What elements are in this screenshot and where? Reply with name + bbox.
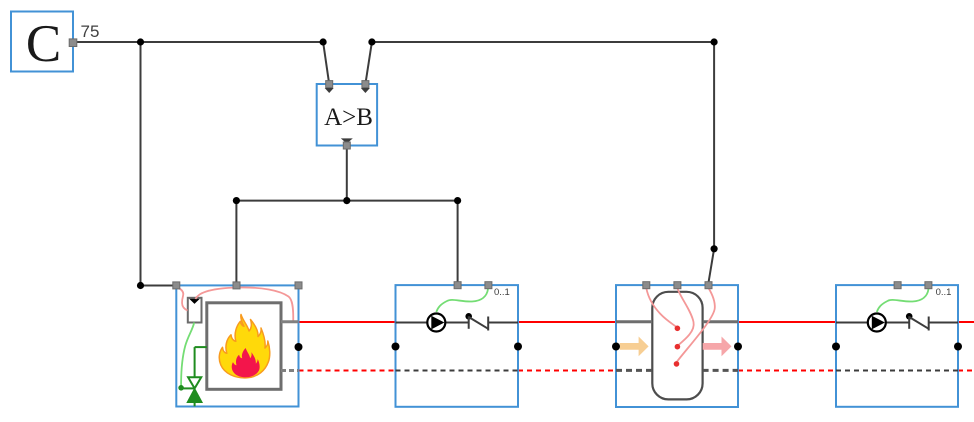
wire slant to A>B input A <box>323 42 329 84</box>
tank sensor curve 2 <box>677 288 693 346</box>
boiler igniter green control curve <box>181 323 194 387</box>
junction dot right of A>B <box>368 38 375 45</box>
boiler top port left <box>173 282 180 289</box>
pump P1 internal return dashed <box>396 370 519 372</box>
wire top right segment <box>372 41 714 43</box>
wire into boiler left port <box>141 285 177 287</box>
pump P1 top port speed <box>485 282 492 289</box>
flame icon <box>219 315 269 378</box>
boiler outlet node dot <box>295 343 303 351</box>
tank sensor curve 3 <box>677 288 715 362</box>
tank charge arrow orange <box>620 337 649 357</box>
pump P2 top port signal <box>894 282 901 289</box>
constant block C <box>11 12 73 74</box>
svg-text:75: 75 <box>81 22 100 41</box>
pump P2 green control curve <box>877 289 929 312</box>
boiler pink control curve left <box>178 288 188 311</box>
junction dot above tank <box>711 245 718 252</box>
wire middle horizontal bus <box>236 200 457 202</box>
wire down to boiler middle port <box>235 201 237 286</box>
wire right vertical drop <box>713 42 715 249</box>
red return pipe dashed pump P2 to edge <box>958 370 974 372</box>
junction dot left bus end <box>233 197 240 204</box>
input port A of comparator <box>325 81 334 93</box>
pump P1 check valve <box>465 313 488 331</box>
tank top port 3 <box>705 282 712 289</box>
wire slant into tank port <box>708 249 714 285</box>
junction dot bus center <box>343 197 350 204</box>
red return pipe dashed pump P1 to tank <box>518 370 616 372</box>
junction dot left drop bottom <box>137 282 144 289</box>
red supply pipe pump P1 to tank <box>518 321 616 323</box>
pump P1 internal pipe <box>396 322 469 324</box>
pump P2 outlet node dot <box>954 343 962 351</box>
tank top port 1 <box>643 282 650 289</box>
pump P2 check valve <box>906 313 929 331</box>
tank outlet node dot <box>734 343 742 351</box>
boiler top port middle <box>233 282 240 289</box>
red supply pipe boiler to pump P1 <box>299 321 396 323</box>
boiler green node dot <box>178 385 184 391</box>
port of constant C <box>69 39 77 47</box>
tank return dashed left <box>616 369 652 372</box>
storage tank T1 <box>616 285 738 407</box>
wire left vertical drop <box>140 42 142 286</box>
pump P2 inlet node dot <box>832 343 840 351</box>
tank supply port line left <box>616 320 652 323</box>
wire down to pump P1 port <box>457 201 459 286</box>
svg-text:0..1: 0..1 <box>494 287 510 298</box>
pump P1 top port signal <box>454 282 461 289</box>
tank sensor dot 1 <box>675 326 681 332</box>
junction dot at C branch <box>137 38 144 45</box>
pump P2 rotor symbol <box>868 314 886 332</box>
pump P2 internal pipe right <box>929 322 958 324</box>
red supply pipe tank to pump P2 <box>738 321 836 323</box>
pump P1 inlet node dot <box>392 343 400 351</box>
red return pipe dashed boiler to pump P1 <box>299 370 396 372</box>
tank sensor dot 3 <box>674 361 680 367</box>
boiler pink control curve right <box>196 287 294 321</box>
boiler combustion chamber <box>207 303 281 390</box>
red return pipe dashed tank to pump P2 <box>738 370 836 372</box>
svg-text:C: C <box>26 15 61 73</box>
tank sensor dot 2 <box>675 344 681 350</box>
junction dot right bus end <box>454 197 461 204</box>
junction dot left of A>B <box>320 38 327 45</box>
pump unit P2 <box>836 285 958 407</box>
wire slant to A>B input B <box>365 42 372 84</box>
pump P1 green control curve <box>436 289 488 312</box>
pump P2 internal pipe <box>836 322 909 324</box>
boiler top port right <box>295 282 302 289</box>
tank return dashed right <box>703 369 738 372</box>
tank supply port line right <box>703 320 738 323</box>
comparator A>B <box>317 84 377 146</box>
junction dot top right corner <box>711 38 718 45</box>
boiler gas valve V1 <box>181 347 207 406</box>
tank top port 2 <box>674 282 681 289</box>
red supply pipe pump P2 to edge <box>958 321 974 323</box>
tank discharge arrow pink <box>703 337 732 357</box>
wire from A>B output down <box>346 147 348 201</box>
tank sensor curve 1 <box>646 288 677 327</box>
output port of comparator <box>341 138 353 149</box>
pump P1 internal pipe right <box>488 322 518 324</box>
boiler return port dashed <box>281 369 299 372</box>
boiler supply port line <box>281 320 299 323</box>
svg-text:A>B: A>B <box>324 104 373 131</box>
wire top from C to left A>B input dot <box>77 41 323 43</box>
svg-text:0..1: 0..1 <box>936 287 952 298</box>
pump P2 top port speed <box>925 282 932 289</box>
pump P2 internal return dashed <box>836 370 958 372</box>
pump P1 rotor symbol <box>427 314 445 332</box>
tank inlet node dot <box>612 343 620 351</box>
tank vessel <box>652 292 702 400</box>
input port B of comparator <box>361 81 370 93</box>
pump P1 outlet node dot <box>514 343 522 351</box>
pump unit P1 <box>396 285 519 407</box>
boiler B1 <box>176 285 298 406</box>
boiler igniter <box>188 298 202 323</box>
